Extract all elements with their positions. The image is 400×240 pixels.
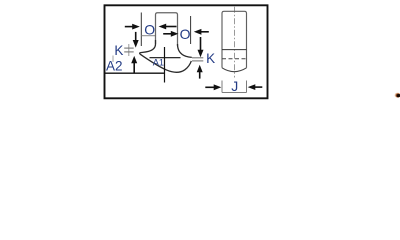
svg-text:O: O bbox=[180, 26, 191, 42]
svg-text:J: J bbox=[231, 78, 238, 94]
svg-text:A1: A1 bbox=[153, 58, 164, 68]
svg-text:K: K bbox=[206, 51, 215, 66]
svg-text:A2: A2 bbox=[106, 59, 123, 74]
svg-text:O: O bbox=[144, 21, 155, 37]
svg-text:K: K bbox=[114, 43, 123, 58]
